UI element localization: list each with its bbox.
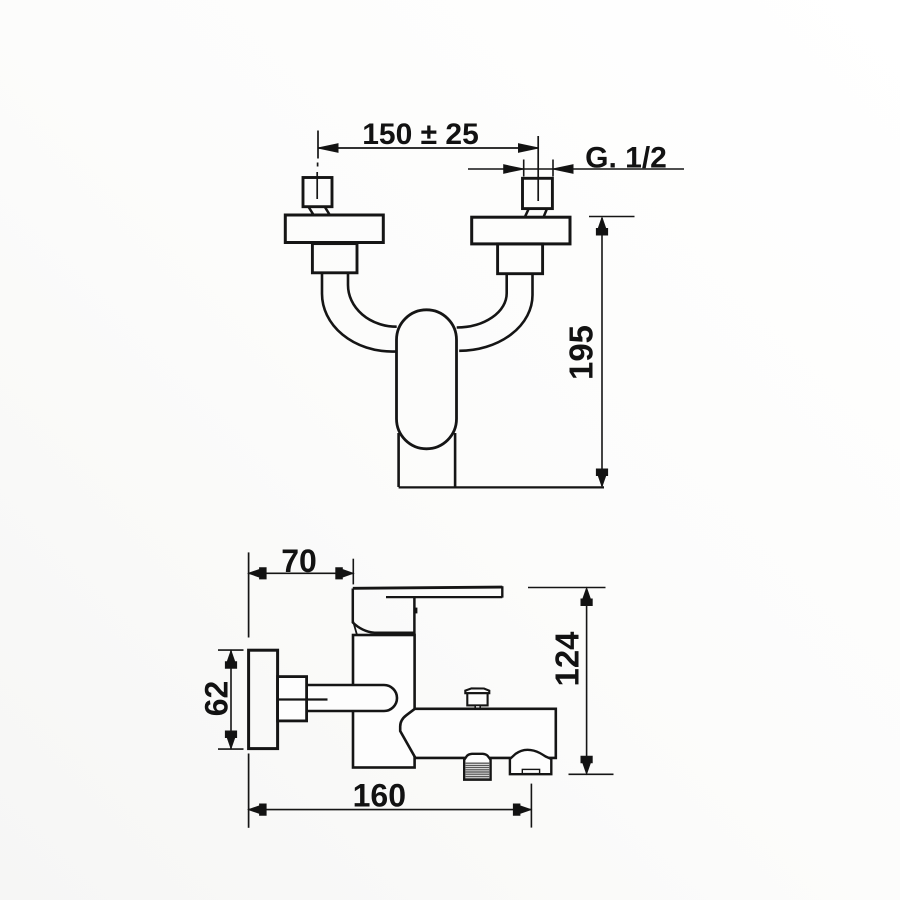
- arrow 70 left: [249, 568, 267, 579]
- extension tick left: [523, 160, 525, 177]
- right wall flange: [472, 217, 570, 244]
- arrow toward nut left: [504, 165, 524, 173]
- dim 195 vertical line: [601, 218, 603, 486]
- dim line 160: [249, 809, 531, 811]
- dim 124 bottom reference line: [569, 773, 614, 775]
- svg-text:62: 62: [199, 681, 235, 717]
- svg-text:G. 1/2: G. 1/2: [585, 142, 667, 175]
- arrow 124 top: [581, 588, 592, 606]
- arrow 62 top: [225, 651, 236, 669]
- shower diverter outlet: [510, 750, 551, 774]
- diverter knob cap: [465, 688, 489, 693]
- left pipe outer edge: [322, 273, 397, 352]
- left connector neck: [309, 207, 314, 215]
- wall reference line lower segment: [248, 754, 250, 828]
- diverter knob body: [467, 693, 487, 705]
- svg-text:195: 195: [563, 325, 600, 380]
- extension line 70 right: [352, 559, 354, 585]
- extension tick right: [552, 160, 554, 177]
- dim 195 top reference line: [589, 216, 635, 218]
- aerator thread lines: [466, 763, 490, 778]
- arrow 124 bottom: [581, 756, 592, 774]
- extension line 160 right: [530, 784, 532, 828]
- hand shower pipe: [307, 685, 397, 711]
- dim line G 1/2: [468, 168, 684, 170]
- down tube left edge: [397, 433, 400, 487]
- center line right union: [537, 136, 539, 201]
- wall flange side view: [249, 650, 278, 748]
- base line: [399, 486, 604, 488]
- arrow toward nut right: [553, 165, 573, 173]
- arrow 160 right: [513, 804, 531, 815]
- right connector nut: [523, 178, 553, 208]
- aerator outlet: [464, 754, 490, 780]
- right body block: [498, 244, 543, 274]
- arrow 62 bottom: [225, 731, 236, 749]
- arrow 195 top: [596, 218, 607, 236]
- lever blade underside: [386, 596, 502, 598]
- svg-text:124: 124: [549, 631, 586, 687]
- dim line 62: [230, 651, 232, 749]
- diverter knob stem: [475, 705, 480, 708]
- union nut side view: [278, 677, 307, 721]
- left pipe inner edge: [348, 273, 397, 327]
- nut center line stub: [279, 698, 328, 700]
- dim line 150±25: [318, 147, 539, 149]
- dim 62 extension top: [218, 649, 244, 651]
- dim 62 extension bottom: [218, 748, 244, 750]
- center line left union: [316, 131, 319, 200]
- arrow 195 bottom: [596, 469, 607, 487]
- dim line 70: [249, 572, 354, 574]
- dim 124 top reference line: [528, 587, 606, 589]
- left body block: [312, 244, 357, 273]
- right connector neck: [525, 210, 529, 218]
- wall reference line upper segment: [248, 552, 250, 637]
- arrow 70 right: [336, 568, 354, 579]
- left wall flange: [285, 215, 383, 243]
- svg-text:150 ± 25: 150 ± 25: [362, 118, 479, 151]
- right pipe outer edge: [459, 274, 532, 351]
- handle cap: [353, 589, 415, 633]
- lever blade right edge: [501, 586, 503, 597]
- arrow right 150: [519, 144, 539, 152]
- dim line 124: [586, 589, 588, 773]
- arrow 160 left: [249, 804, 267, 815]
- handle lever blade top: [353, 587, 503, 588]
- arrow left 150: [318, 144, 338, 152]
- left connector nut: [303, 178, 332, 207]
- down tube right edge: [454, 433, 457, 487]
- diverter outlet slot: [522, 769, 539, 773]
- svg-text:160: 160: [353, 778, 406, 814]
- svg-text:70: 70: [281, 543, 317, 579]
- handle front tip flap: [353, 622, 357, 635]
- column body: [353, 635, 415, 768]
- cartridge nub: [414, 608, 417, 614]
- right pipe inner edge: [457, 274, 507, 328]
- cartridge capsule body: [397, 310, 457, 449]
- spout body: [400, 709, 556, 758]
